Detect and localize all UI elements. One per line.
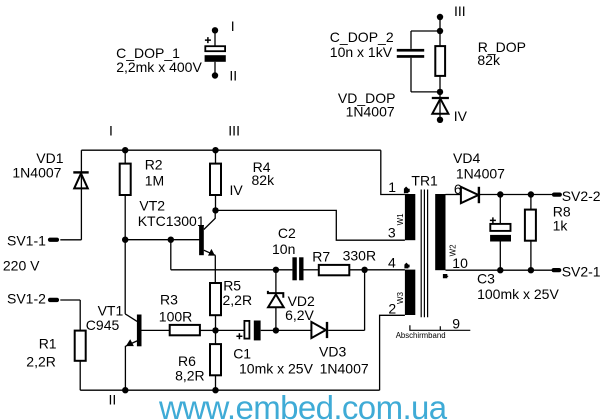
svg-text:III: III <box>454 3 466 19</box>
resistor R4 <box>210 150 221 210</box>
label R3 <box>159 291 192 324</box>
transistor VT2 <box>199 210 215 283</box>
node junction R8 bottom <box>528 267 534 273</box>
diode VD4 <box>461 187 553 203</box>
label C3 <box>477 270 559 302</box>
terminal SV1-1 <box>7 232 81 248</box>
label R5 <box>223 277 253 307</box>
label C_DOP_2 <box>330 29 394 60</box>
label VD2 <box>285 293 315 323</box>
svg-text:1N4007: 1N4007 <box>346 104 395 120</box>
svg-text:10mk x 25V: 10mk x 25V <box>239 361 314 377</box>
phase marker W3 <box>404 263 409 269</box>
node junction <box>437 28 443 34</box>
diode VD1 <box>73 150 88 240</box>
label VD1 <box>12 150 63 181</box>
svg-text:100mk x 25V: 100mk x 25V <box>477 286 559 302</box>
node junction VT1 emitter <box>122 387 128 393</box>
label R7 <box>312 247 376 264</box>
wire <box>439 17 441 46</box>
svg-text:R1: R1 <box>39 336 57 352</box>
svg-text:82k: 82k <box>252 172 276 188</box>
diode VD_DOP <box>432 92 449 123</box>
wire TR1 pin 10 row <box>446 269 553 271</box>
svg-text:R3: R3 <box>160 291 178 307</box>
svg-text:W1: W1 <box>396 213 405 226</box>
svg-text:VD3: VD3 <box>319 344 346 360</box>
terminal SV1-2 <box>7 290 80 306</box>
resistor R_DOP <box>435 46 445 92</box>
svg-text:1N4007: 1N4007 <box>12 165 61 181</box>
svg-text:100R: 100R <box>159 309 192 325</box>
wire VD3 to R7 node <box>364 270 366 331</box>
transformer TR1 core <box>421 190 427 318</box>
wire <box>411 31 440 49</box>
shield bracket pin 9 <box>410 316 470 332</box>
transformer TR1 winding W1 <box>405 194 415 240</box>
resistor R6 <box>210 344 221 375</box>
svg-text:SV2-1: SV2-1 <box>562 264 601 280</box>
svg-text:1N4007: 1N4007 <box>456 166 505 182</box>
diode VD3 <box>311 322 364 338</box>
svg-text:VD4: VD4 <box>453 150 480 166</box>
node junction C3 top <box>497 191 503 197</box>
capacitor C2 <box>292 257 318 280</box>
label VD_DOP <box>338 90 396 120</box>
label C1 <box>233 345 313 376</box>
wire TR1 pin 2 to bottom rail <box>380 315 405 390</box>
resistor R1 <box>75 300 86 390</box>
resistor R5 <box>210 283 221 315</box>
resistor R7 <box>319 265 405 275</box>
wire <box>411 58 440 92</box>
svg-text:SV1-1: SV1-1 <box>7 232 46 248</box>
label R1 <box>26 336 57 370</box>
svg-text:II: II <box>109 392 117 408</box>
svg-text:9: 9 <box>452 316 460 332</box>
capacitor C_DOP_2 <box>397 49 424 58</box>
svg-text:III: III <box>228 122 240 138</box>
svg-text:W3: W3 <box>396 291 405 304</box>
wire <box>276 329 312 331</box>
svg-text:R2: R2 <box>145 157 163 173</box>
resistor R3 <box>170 325 216 335</box>
svg-text:220 V: 220 V <box>3 258 40 274</box>
wire to TR1 pin 3 <box>216 210 405 240</box>
transistor VT1 <box>125 314 170 390</box>
label C2 <box>272 225 296 257</box>
node junction C2 left <box>273 267 279 273</box>
node junction R6 bottom <box>212 387 218 393</box>
transformer TR1 winding W3 <box>405 270 415 315</box>
label R8 <box>553 203 571 233</box>
node junction C1/VD2/VD3 <box>273 327 279 333</box>
label R6 <box>175 353 205 383</box>
zener diode VD2 <box>267 270 284 331</box>
wire to TR1 pin 1 <box>381 150 405 194</box>
node junction below R4 <box>212 207 218 213</box>
svg-text:C3: C3 <box>477 270 495 286</box>
svg-text:VD1: VD1 <box>36 150 63 166</box>
wire <box>215 375 217 390</box>
svg-text:C2: C2 <box>278 225 296 241</box>
svg-text:C945: C945 <box>86 317 120 333</box>
svg-text:3: 3 <box>388 225 396 241</box>
svg-text:I: I <box>109 122 113 138</box>
wire base rail <box>125 239 200 241</box>
svg-text:82k: 82k <box>477 52 501 68</box>
resistor R2 <box>120 150 131 314</box>
svg-text:C1: C1 <box>233 345 251 361</box>
svg-text:IV: IV <box>454 108 468 124</box>
wire C2 row <box>171 269 293 271</box>
svg-text:2,2mk x 400V: 2,2mk x 400V <box>116 59 202 75</box>
wire <box>170 240 172 270</box>
label VT2 <box>138 197 205 229</box>
svg-text:www.embed.com.ua: www.embed.com.ua <box>158 389 448 420</box>
svg-text:VT2: VT2 <box>139 197 165 213</box>
label VT1 <box>86 302 124 333</box>
node junction R2 column <box>122 237 128 243</box>
svg-text:8,2R: 8,2R <box>175 367 205 383</box>
svg-text:10n: 10n <box>272 241 295 257</box>
node junction top rail III <box>212 147 218 153</box>
svg-text:SV2-2: SV2-2 <box>562 188 601 204</box>
svg-text:KTC13001: KTC13001 <box>138 213 205 229</box>
svg-text:W2: W2 <box>448 244 457 257</box>
svg-text:I: I <box>231 18 235 34</box>
label R4 <box>252 159 276 188</box>
terminal SV2-2 <box>552 188 601 204</box>
phase marker W2 <box>443 274 448 278</box>
svg-text:1: 1 <box>388 179 396 195</box>
svg-text:1k: 1k <box>553 218 569 234</box>
label VD3 <box>319 344 369 377</box>
wire bottom rail <box>80 389 379 391</box>
node junction R3/R5/R6/C1 <box>212 327 218 333</box>
wire top rail <box>81 149 380 151</box>
svg-text:Abschirmband: Abschirmband <box>396 331 446 340</box>
wire TR1 pin 6 <box>446 194 461 196</box>
svg-text:SV1-2: SV1-2 <box>7 290 46 306</box>
node junction base wire <box>168 237 174 243</box>
node junction <box>437 89 443 95</box>
svg-text:10: 10 <box>452 255 468 271</box>
wire <box>215 315 217 344</box>
svg-text:1N4007: 1N4007 <box>320 361 369 377</box>
node junction top rail I <box>122 147 128 153</box>
svg-text:330R: 330R <box>343 247 376 263</box>
node junction R7 right <box>361 267 367 273</box>
phase marker W1 <box>404 187 410 194</box>
label R2 <box>145 157 164 189</box>
svg-text:IV: IV <box>230 182 244 198</box>
svg-text:10n x 1kV: 10n x 1kV <box>330 44 393 60</box>
label R_DOP <box>477 39 526 68</box>
resistor R8 <box>525 195 536 271</box>
svg-text:TR1: TR1 <box>411 173 438 189</box>
node junction C3 bottom <box>497 267 503 273</box>
transformer TR1 winding W2 <box>435 194 445 270</box>
svg-text:2,2R: 2,2R <box>223 292 253 308</box>
node III (top subcircuit) <box>437 3 466 20</box>
label C_DOP_1 value <box>116 45 202 75</box>
capacitor C1 <box>216 321 276 341</box>
svg-text:2,2R: 2,2R <box>26 353 56 369</box>
svg-text:6,2V: 6,2V <box>285 307 314 323</box>
label VD4 <box>453 150 505 182</box>
svg-text:R7: R7 <box>312 249 330 265</box>
capacitor C3 <box>490 195 511 271</box>
capacitor C_DOP_1 <box>205 27 226 79</box>
node junction R8 top <box>528 191 534 197</box>
terminal SV2-1 <box>552 264 601 280</box>
svg-text:C_DOP_2: C_DOP_2 <box>330 29 394 45</box>
svg-text:1M: 1M <box>145 173 164 189</box>
svg-text:II: II <box>229 68 237 84</box>
svg-text:4: 4 <box>388 254 396 270</box>
